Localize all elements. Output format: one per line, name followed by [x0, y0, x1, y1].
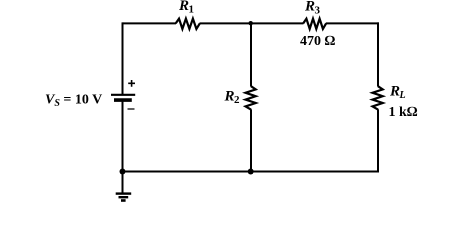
- svg-text:L: L: [399, 90, 406, 101]
- svg-text:1: 1: [189, 4, 195, 16]
- wire middle vertical upper: [250, 22, 252, 86]
- svg-text:R: R: [224, 88, 235, 104]
- svg-text:VS = 10 V: VS = 10 V: [45, 93, 102, 110]
- svg-text:R: R: [389, 84, 400, 100]
- wire top-right segment: [326, 22, 379, 24]
- wire top-left segment: [123, 22, 177, 24]
- ground stub wire: [122, 172, 124, 194]
- svg-text:3: 3: [315, 4, 321, 16]
- junction dot bottom middle: [248, 169, 254, 175]
- wire right vertical lower: [377, 109, 379, 172]
- resistor R3: [303, 19, 326, 29]
- svg-text:470 Ω: 470 Ω: [300, 34, 336, 49]
- wire left vertical lower: [122, 100, 124, 172]
- battery minus sign: [128, 108, 135, 110]
- wire left vertical upper: [122, 22, 124, 94]
- battery plus sign: [128, 80, 135, 87]
- svg-text:R: R: [178, 0, 189, 14]
- battery source VS top plate: [111, 94, 135, 96]
- resistor R1: [176, 19, 200, 29]
- battery source VS bottom plate: [114, 98, 132, 102]
- resistor R2: [246, 86, 256, 109]
- svg-text:R: R: [304, 0, 315, 15]
- wire middle vertical lower: [250, 109, 252, 171]
- resistor RL: [373, 86, 383, 109]
- ground symbol: [116, 194, 132, 201]
- junction dot bottom left: [120, 169, 126, 175]
- svg-text:1 kΩ: 1 kΩ: [389, 105, 418, 120]
- junction dot top middle: [249, 21, 253, 25]
- wire top-middle segment: [200, 22, 304, 24]
- wire right vertical upper: [377, 22, 379, 86]
- wire bottom: [123, 171, 380, 173]
- svg-text:2: 2: [234, 94, 240, 106]
